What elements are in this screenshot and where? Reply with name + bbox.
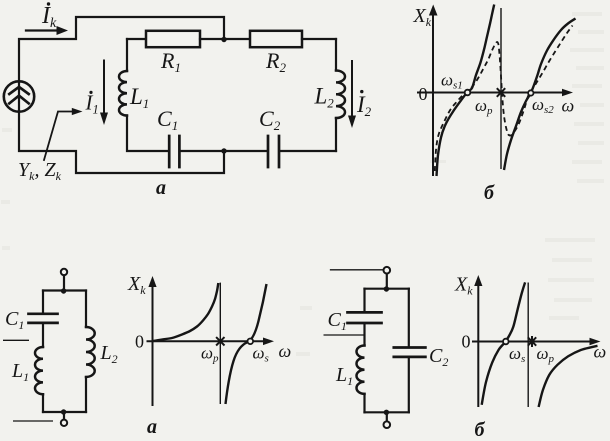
wire: left branch to C1	[42, 291, 44, 313]
stray mark line bottom	[13, 420, 53, 422]
wire: C2 to right branch	[280, 150, 336, 152]
capacitor C2	[268, 136, 279, 167]
wire: source bottom return to bottom junction	[19, 82, 224, 173]
wire: box bottom	[365, 411, 409, 413]
leader from Yk,Zk label	[44, 112, 73, 161]
wire: C1 to L1	[363, 324, 365, 345]
curve solid right branch	[504, 19, 576, 171]
svg-text:Yk, Zk: Yk, Zk	[18, 159, 62, 183]
axis Xk vertical	[152, 285, 154, 406]
wire: top junction to R2	[224, 38, 250, 40]
arrow I1	[103, 61, 105, 114]
label I1	[85, 91, 99, 117]
marker omega p (star)	[216, 337, 224, 345]
node: bottom junction between C1 and C2	[221, 148, 226, 153]
marker omega s	[248, 339, 254, 345]
wire: box bottom to terminal	[63, 412, 65, 419]
wire: left branch to C1	[363, 289, 365, 311]
arrow I2	[351, 61, 353, 116]
marker omega p (star)	[497, 88, 505, 97]
capacitor C1	[29, 314, 58, 323]
wire: C1 to bottom junction	[180, 150, 224, 152]
svg-text:0: 0	[135, 332, 144, 352]
axis omega horizontal	[417, 92, 562, 94]
inductor L1	[119, 71, 127, 116]
svg-text:0: 0	[462, 332, 471, 352]
svg-text:а: а	[147, 416, 157, 438]
curve solid left branch	[153, 283, 219, 341]
wire: box top	[365, 288, 409, 290]
wire: L1 to box bottom	[42, 394, 44, 412]
wire: right branch lower	[335, 118, 337, 151]
terminal top	[61, 269, 67, 275]
wire: C2 to box bottom	[408, 358, 410, 412]
asymptote at omega p	[527, 283, 529, 408]
wire: L1 to box bottom	[363, 394, 365, 412]
curve dashed (with losses)	[435, 26, 573, 172]
wire: left branch upper	[126, 39, 128, 71]
wire: C1 to L1	[42, 324, 44, 347]
terminal bottom	[61, 420, 67, 426]
capacitor C2	[394, 348, 426, 357]
marker omega s	[503, 339, 509, 345]
node: top junction between R1 and R2	[221, 37, 226, 42]
svg-text:б: б	[484, 182, 495, 204]
stray mark line	[324, 334, 365, 336]
inductor L1	[357, 346, 365, 394]
svg-text:ω: ω	[279, 341, 292, 361]
asymptote at omega p	[219, 283, 221, 404]
axis omega horizontal	[147, 340, 265, 342]
wire: left branch lower	[127, 116, 168, 152]
label Ik	[41, 2, 57, 31]
curve solid left branch	[482, 282, 525, 404]
stray lead line top	[331, 269, 384, 271]
svg-text:0: 0	[419, 84, 428, 104]
svg-text:б: б	[475, 419, 486, 441]
curve solid left branch	[437, 5, 495, 177]
stray mark line left	[3, 339, 29, 341]
axis Xk vertical	[477, 284, 479, 407]
current source Ik	[4, 81, 34, 111]
terminal bottom	[384, 421, 391, 428]
asymptote at omega p	[500, 8, 502, 169]
inductor L1	[35, 347, 43, 394]
capacitor C1	[169, 136, 179, 167]
node: bottom junction dot	[384, 410, 389, 415]
wire: box bottom to terminal	[386, 412, 388, 421]
wire: terminal to box	[386, 274, 388, 289]
wire: bottom junction to C2	[224, 150, 267, 152]
wire: R1 to top junction	[200, 38, 224, 40]
wire: right branch upper	[335, 39, 337, 71]
marker omega s1	[465, 90, 471, 96]
svg-text:ω: ω	[594, 342, 607, 362]
resistor R1	[146, 31, 200, 47]
inductor L2	[86, 327, 95, 377]
curve solid right branch	[539, 346, 598, 407]
wire: box top	[43, 289, 86, 291]
wire: inner top left segment	[127, 38, 146, 40]
wire: R2 to right corner	[302, 38, 336, 40]
wire: box bottom	[43, 411, 86, 413]
faint page bleed-through texture	[1, 12, 604, 356]
node: top junction dot	[384, 286, 389, 291]
wire: right branch lower	[85, 377, 87, 412]
marker omega p (star)	[528, 336, 536, 347]
wire: left vertical through source, top feed to mid junction	[19, 17, 224, 111]
axis Xk vertical	[432, 14, 434, 176]
wire: right branch to C2	[408, 289, 410, 347]
wire: right branch upper	[85, 291, 87, 328]
marker omega s2	[528, 90, 533, 95]
inductor L2	[336, 71, 345, 119]
node: top junction dot	[61, 288, 66, 293]
arrow Ik	[26, 29, 58, 31]
curve solid right branch	[226, 284, 267, 404]
label I2	[356, 90, 372, 119]
capacitor C1	[348, 312, 382, 323]
svg-text:а: а	[156, 177, 166, 199]
axis omega horizontal	[472, 341, 590, 343]
node: bottom junction dot	[61, 409, 66, 414]
svg-text:ω: ω	[562, 96, 575, 116]
resistor R2	[250, 31, 302, 47]
wire: terminal to box	[63, 275, 65, 291]
terminal top	[384, 267, 391, 274]
